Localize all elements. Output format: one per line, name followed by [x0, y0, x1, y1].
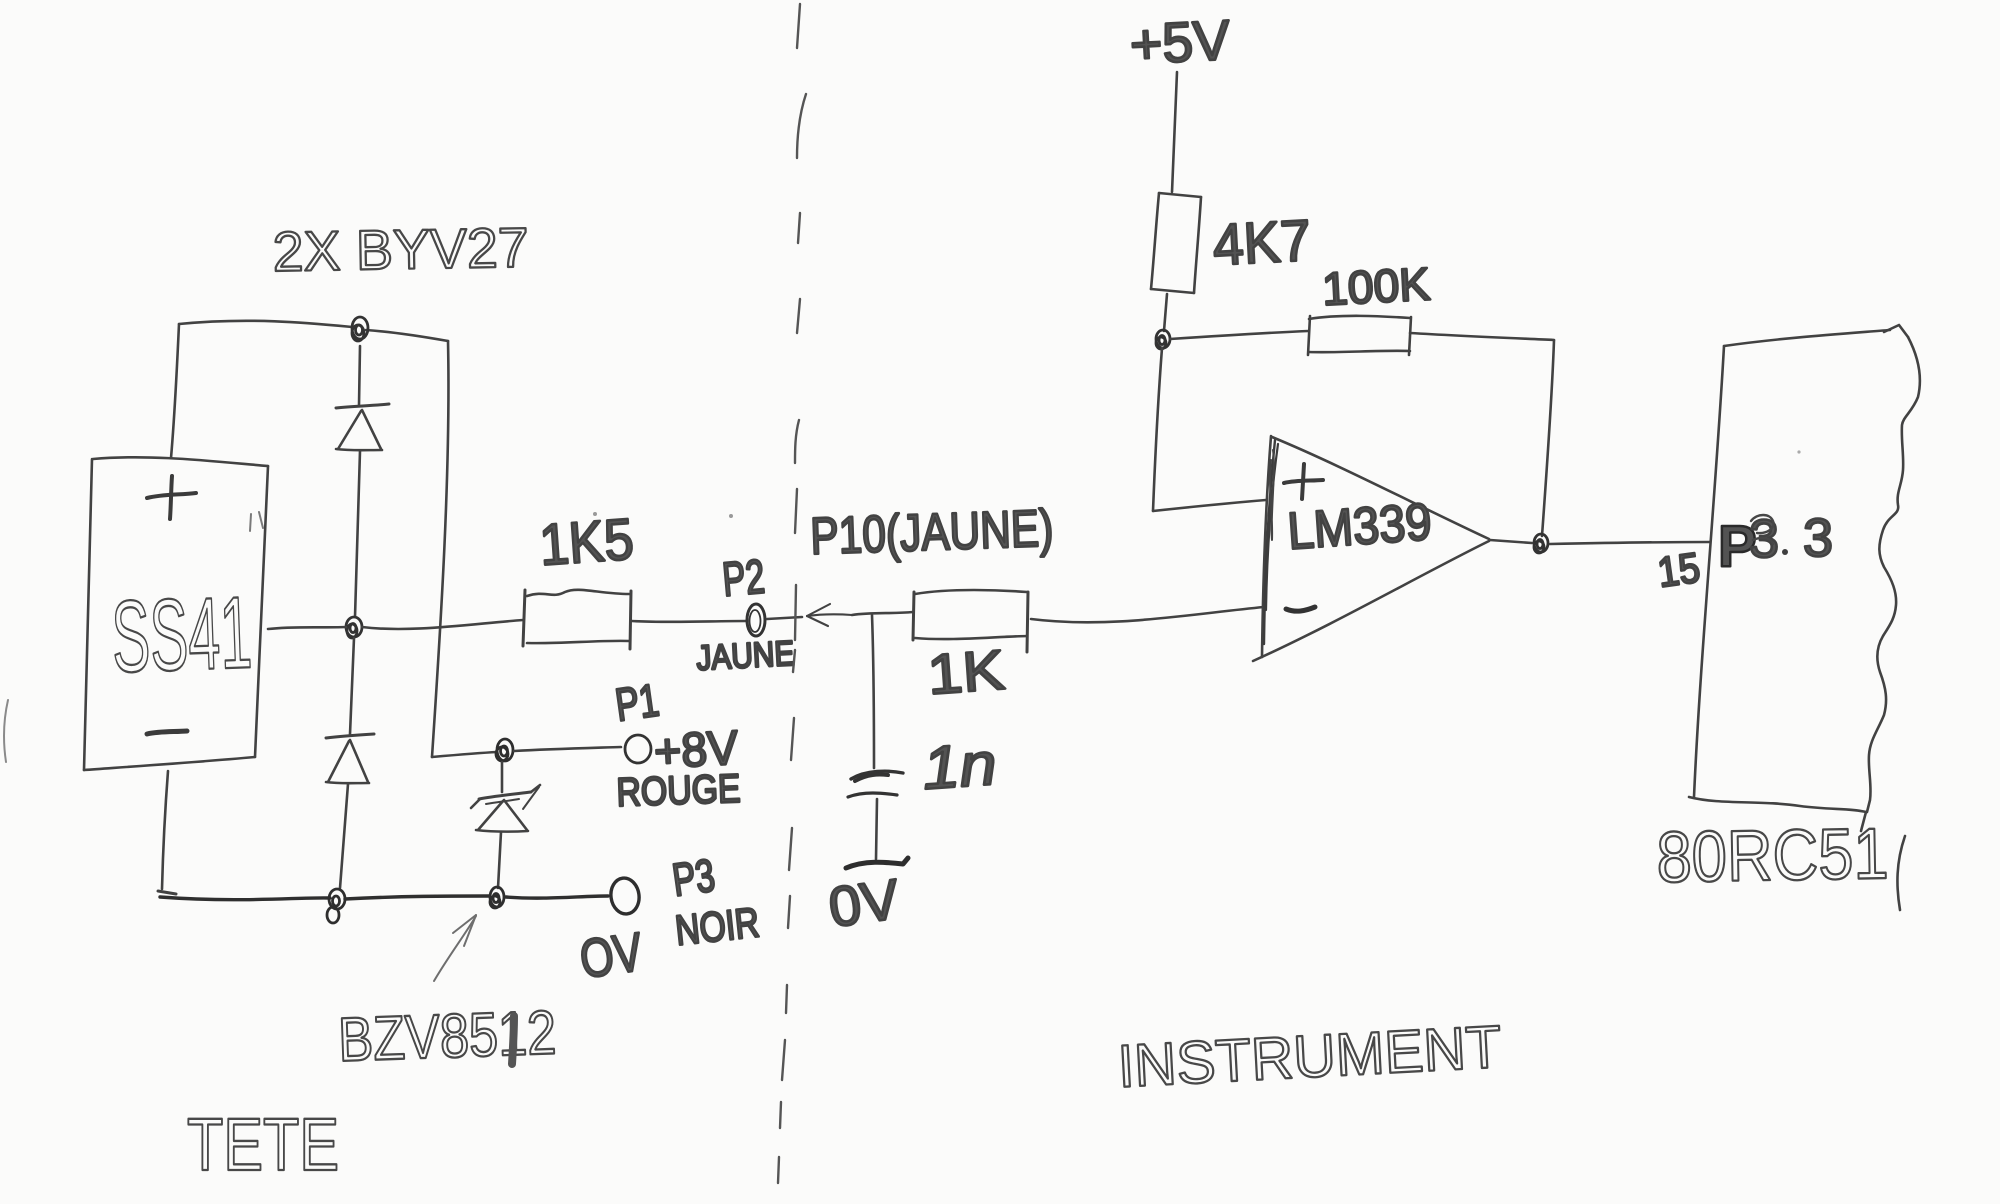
svg-text:P10(JAUNE): P10(JAUNE) — [809, 500, 1054, 566]
wire op-amp output — [1490, 540, 1710, 544]
svg-text:NOIR: NOIR — [673, 898, 761, 954]
op-amp U1 LM339 — [1253, 436, 1489, 661]
wire 1K to op-amp minus input — [1031, 607, 1264, 622]
svg-text:P2: P2 — [720, 550, 766, 606]
diode D1 BYV27 — [336, 346, 389, 617]
wire SS41 output — [268, 627, 346, 629]
wire P2 to dashed border — [767, 617, 802, 619]
svg-text:TETE: TETE — [187, 1103, 339, 1186]
wire node to 100K — [1170, 331, 1308, 339]
connector P2 — [747, 604, 765, 636]
SS41 minus terminal mark — [147, 731, 187, 734]
svg-text:1n: 1n — [920, 730, 998, 802]
svg-text:1K5: 1K5 — [537, 507, 635, 578]
node feedback junction — [1156, 330, 1170, 349]
connector P3 — [609, 876, 642, 916]
wire feedback down — [1542, 340, 1554, 536]
wire to P1 node — [432, 752, 497, 757]
wire 1K5 to P2 — [632, 620, 747, 623]
svg-text:80RC51: 80RC51 — [1656, 814, 1889, 898]
svg-text:ROUGE: ROUGE — [616, 767, 741, 815]
svg-text:15: 15 — [1655, 544, 1703, 596]
diode D2 BYV27 — [326, 638, 374, 888]
stray mark left edge — [4, 700, 8, 762]
wire capacitor branch down — [872, 615, 874, 768]
resistor 1K5 — [523, 590, 631, 649]
dashed boundary line — [778, 4, 806, 1183]
wire to 1K resistor — [852, 612, 913, 615]
node bottom-left junction — [327, 889, 345, 923]
svg-text:3: 3 — [1803, 508, 1833, 568]
wire plus input horizontal — [1153, 500, 1266, 511]
wire 4K7 to node — [1164, 294, 1167, 331]
svg-text:+5V: +5V — [1128, 8, 1232, 76]
svg-text:BZV8512: BZV8512 — [337, 998, 557, 1075]
wire node to P1 connector — [514, 747, 621, 751]
node output junction — [1534, 534, 1548, 553]
resistor 4K7 — [1151, 193, 1201, 293]
svg-text:1K: 1K — [925, 638, 1006, 706]
connector P1 — [625, 735, 651, 763]
wire bottom rail — [158, 891, 176, 894]
ground 0V terminal bar — [846, 858, 908, 868]
arrow head on wire at border — [807, 604, 852, 626]
svg-text:JAUNE: JAUNE — [695, 634, 795, 678]
arrow pointing to zener — [434, 915, 476, 981]
node zener bottom junction — [490, 887, 504, 908]
bracket after 80RC51 — [1897, 836, 1905, 910]
capacitor 1n top plate — [851, 771, 903, 779]
wire 100K to corner — [1410, 333, 1554, 340]
stray pencil mark inside box — [250, 512, 263, 531]
capacitor 1n bottom plate — [848, 793, 897, 797]
overdrawn bold 1 in BZV8512 — [512, 1016, 514, 1064]
svg-text:2X BYV27: 2X BYV27 — [272, 216, 529, 283]
wire +5V down — [1172, 72, 1177, 192]
svg-text:SS41: SS41 — [110, 575, 254, 694]
SS41 plus terminal mark — [147, 476, 196, 519]
IC 80RC51 box — [1689, 325, 1920, 831]
wire cap to 0V bar — [876, 799, 877, 859]
stray dots — [593, 512, 597, 516]
svg-text:4K7: 4K7 — [1211, 208, 1312, 278]
wire SS41 bottom down — [162, 771, 168, 889]
node mid (junction with output wire) — [346, 617, 362, 638]
resistor 1K — [913, 590, 1028, 652]
wire right vertical of loop — [432, 341, 448, 757]
svg-text:OV: OV — [576, 922, 646, 990]
node P1 junction — [496, 739, 513, 761]
svg-text:0V: 0V — [825, 867, 904, 939]
op-amp plus input mark — [1284, 464, 1323, 499]
svg-text:P1: P1 — [612, 673, 662, 730]
node top (junction) — [352, 317, 368, 341]
wire SS41 + up — [171, 324, 179, 458]
wire plus input vertical — [1153, 348, 1162, 511]
resistor 100K — [1308, 316, 1411, 355]
svg-text:LM339: LM339 — [1286, 493, 1434, 561]
op-amp minus input mark — [1286, 607, 1315, 611]
svg-text:P3: P3 — [669, 849, 718, 906]
zener diode BZV85 — [471, 762, 540, 888]
svg-text:100K: 100K — [1321, 257, 1432, 315]
sensor SS41 box — [84, 457, 268, 770]
wire top horizontal — [179, 321, 448, 341]
